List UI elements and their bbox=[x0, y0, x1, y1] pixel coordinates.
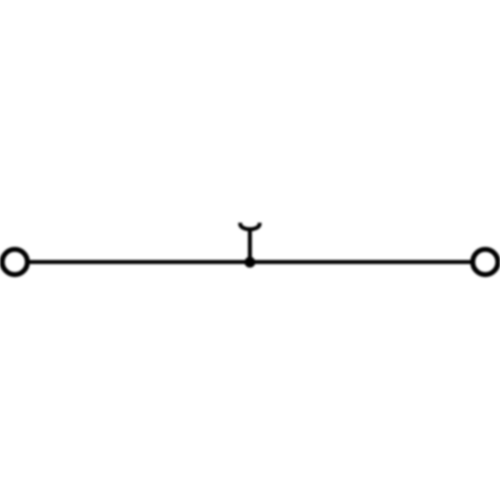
terminal T2 (right open circle) bbox=[473, 249, 498, 274]
wire (test tap stem) bbox=[248, 229, 252, 262]
test tap contact arc bbox=[240, 223, 259, 230]
node junction dot bbox=[244, 257, 255, 268]
terminal T1 (left open circle) bbox=[2, 249, 27, 274]
wire (horizontal conductor) bbox=[27, 260, 473, 264]
